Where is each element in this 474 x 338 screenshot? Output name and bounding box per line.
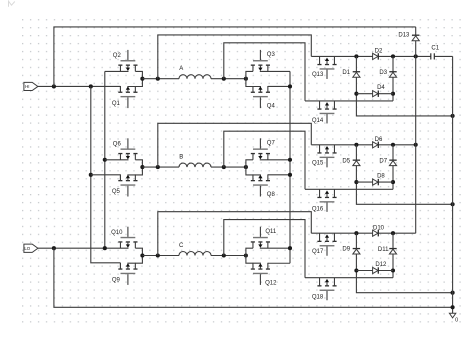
svg-text:Q16: Q16 — [312, 206, 324, 212]
junction — [222, 77, 226, 81]
svg-text:D1: D1 — [342, 70, 350, 76]
transistor Q3 — [251, 50, 276, 72]
junction — [288, 246, 292, 250]
wire — [127, 167, 142, 175]
wire — [224, 43, 305, 101]
svg-text:Q15: Q15 — [312, 160, 324, 166]
wire HI input — [38, 85, 121, 87]
svg-text:Q8: Q8 — [267, 192, 276, 198]
junction — [140, 165, 144, 169]
svg-text:D11: D11 — [378, 247, 389, 253]
svg-text:Q17: Q17 — [312, 249, 324, 255]
wire — [158, 35, 311, 79]
wire — [127, 79, 142, 87]
wire bottom rail — [54, 248, 453, 307]
junction — [156, 77, 160, 81]
svg-text:Q1: Q1 — [112, 101, 121, 107]
transistor Q4 — [251, 86, 276, 110]
ground — [449, 313, 458, 323]
wire — [260, 247, 290, 249]
svg-text:Q4: Q4 — [267, 104, 276, 110]
wire series line — [435, 55, 453, 57]
wire — [158, 212, 311, 256]
wire — [268, 85, 290, 87]
diode D11 — [378, 233, 397, 278]
wire LO input — [38, 247, 129, 249]
transistor Q15 — [312, 145, 337, 168]
junction — [354, 54, 358, 58]
transistor Q6 — [113, 138, 138, 160]
port LO — [24, 244, 38, 252]
svg-text:B: B — [179, 155, 183, 161]
svg-text:C: C — [179, 243, 184, 249]
diode D4 — [373, 85, 386, 97]
transistor Q2 — [113, 50, 138, 72]
wire series line — [311, 55, 430, 57]
junction — [52, 246, 56, 250]
wire upper-source bus — [104, 71, 106, 248]
junction — [451, 202, 455, 206]
transistor Q14 — [312, 101, 337, 124]
diode D9 — [342, 233, 452, 293]
wire output bus — [452, 56, 454, 313]
junction — [451, 305, 455, 309]
svg-text:D9: D9 — [342, 247, 350, 253]
wire phase B input — [91, 174, 121, 176]
wire — [356, 270, 393, 272]
junction — [451, 291, 455, 295]
transistor Q7 — [251, 138, 276, 160]
junction — [391, 143, 395, 147]
svg-text:Q2: Q2 — [113, 53, 122, 59]
wire — [246, 160, 253, 167]
inductor B — [179, 155, 211, 168]
wire — [356, 93, 393, 95]
diode D13 — [398, 27, 419, 233]
diode D12 — [373, 262, 387, 274]
junction — [391, 268, 395, 272]
svg-text:Q10: Q10 — [111, 230, 123, 236]
svg-text:Q12: Q12 — [265, 280, 277, 286]
transistor Q1 — [112, 86, 138, 108]
junction — [244, 253, 248, 257]
wire — [105, 70, 129, 72]
svg-text:D10: D10 — [373, 225, 385, 231]
junction — [140, 253, 144, 257]
wire — [246, 256, 261, 264]
diode D10 — [373, 225, 385, 236]
junction — [391, 180, 395, 184]
wire phase node — [211, 78, 246, 80]
capacitor C1 — [431, 45, 440, 59]
wire — [105, 159, 129, 161]
junction — [156, 165, 160, 169]
svg-text:D6: D6 — [375, 137, 383, 143]
diode D1 — [342, 56, 452, 116]
junction — [354, 92, 358, 96]
wire — [246, 71, 253, 78]
wire — [246, 167, 261, 175]
wire — [158, 123, 311, 167]
svg-text:0: 0 — [455, 318, 458, 324]
junction — [391, 54, 395, 58]
wire — [305, 188, 393, 190]
junction — [391, 92, 395, 96]
transistor Q12 — [251, 263, 277, 287]
wire — [246, 248, 253, 255]
svg-text:D13: D13 — [398, 33, 410, 39]
svg-text:Q14: Q14 — [312, 118, 324, 124]
wire — [119, 263, 121, 269]
junction — [288, 84, 292, 88]
wire right-bridge bus — [289, 71, 291, 263]
junction — [414, 54, 418, 58]
svg-text:Q13: Q13 — [312, 72, 324, 78]
junction — [354, 143, 358, 147]
svg-text:D12: D12 — [375, 262, 387, 268]
wire — [224, 131, 305, 189]
wire — [260, 159, 290, 161]
junction — [354, 180, 358, 184]
wire phase node — [142, 78, 179, 80]
svg-text:Q11: Q11 — [265, 229, 277, 235]
inductor A — [179, 66, 211, 79]
wire phase node — [211, 255, 246, 257]
diode D3 — [379, 56, 396, 101]
wire — [119, 175, 121, 181]
transistor Q10 — [111, 227, 137, 249]
svg-text:D5: D5 — [342, 158, 350, 164]
junction — [52, 84, 56, 88]
svg-text:Q3: Q3 — [267, 52, 276, 58]
transistor Q11 — [251, 227, 277, 249]
diode D8 — [373, 173, 386, 185]
wire phase node — [142, 255, 179, 257]
transistor Q17 — [312, 233, 337, 256]
inductor C — [179, 243, 211, 256]
wire series line — [311, 144, 415, 146]
svg-text:D7: D7 — [379, 158, 387, 164]
diode D7 — [379, 145, 396, 190]
junction — [156, 253, 160, 257]
wire — [305, 100, 393, 102]
diode D6 — [373, 137, 383, 148]
junction — [451, 114, 455, 118]
junction — [222, 165, 226, 169]
wire series line — [311, 232, 415, 234]
diode D2 — [373, 49, 383, 60]
svg-text:D8: D8 — [377, 173, 385, 179]
svg-text:HI: HI — [25, 84, 29, 89]
junction — [288, 173, 292, 177]
transistor Q5 — [112, 174, 138, 196]
svg-text:Q6: Q6 — [113, 142, 122, 148]
transistor Q16 — [312, 189, 337, 212]
wire — [135, 71, 142, 78]
wire — [127, 256, 142, 264]
wire — [268, 174, 290, 176]
junction — [354, 268, 358, 272]
wire phase node — [211, 166, 246, 168]
svg-text:Q9: Q9 — [112, 278, 121, 284]
junction — [288, 158, 292, 162]
wire — [305, 277, 393, 279]
wire phase node — [142, 166, 179, 168]
svg-text:D2: D2 — [375, 49, 383, 55]
wire — [268, 262, 290, 264]
svg-text:LO: LO — [24, 246, 30, 251]
wire — [135, 248, 142, 255]
wire lower-gate bus — [91, 86, 121, 262]
svg-text:Q5: Q5 — [112, 189, 121, 195]
wire — [260, 70, 290, 72]
svg-text:C1: C1 — [431, 45, 439, 51]
svg-text:D4: D4 — [377, 85, 385, 91]
junction — [140, 77, 144, 81]
svg-text:A: A — [179, 66, 183, 72]
port HI — [24, 82, 38, 90]
transistor Q8 — [251, 174, 276, 198]
junction — [244, 77, 248, 81]
svg-text:Q7: Q7 — [267, 141, 276, 147]
wire — [119, 86, 121, 92]
diode D5 — [342, 145, 452, 205]
junction — [391, 231, 395, 235]
junction — [354, 231, 358, 235]
junction — [89, 84, 93, 88]
wire — [246, 79, 261, 87]
junction — [89, 173, 93, 177]
svg-text:D3: D3 — [379, 70, 387, 76]
transistor Q18 — [312, 278, 337, 301]
junction — [244, 165, 248, 169]
svg-text:Q18: Q18 — [312, 295, 324, 301]
transistor Q9 — [112, 263, 138, 285]
wire — [224, 220, 305, 278]
transistor Q13 — [312, 56, 337, 79]
wire — [356, 181, 393, 183]
wire top rail — [54, 27, 416, 87]
junction — [103, 246, 107, 250]
junction — [414, 143, 418, 147]
junction — [222, 253, 226, 257]
junction — [103, 158, 107, 162]
wire — [135, 160, 142, 167]
